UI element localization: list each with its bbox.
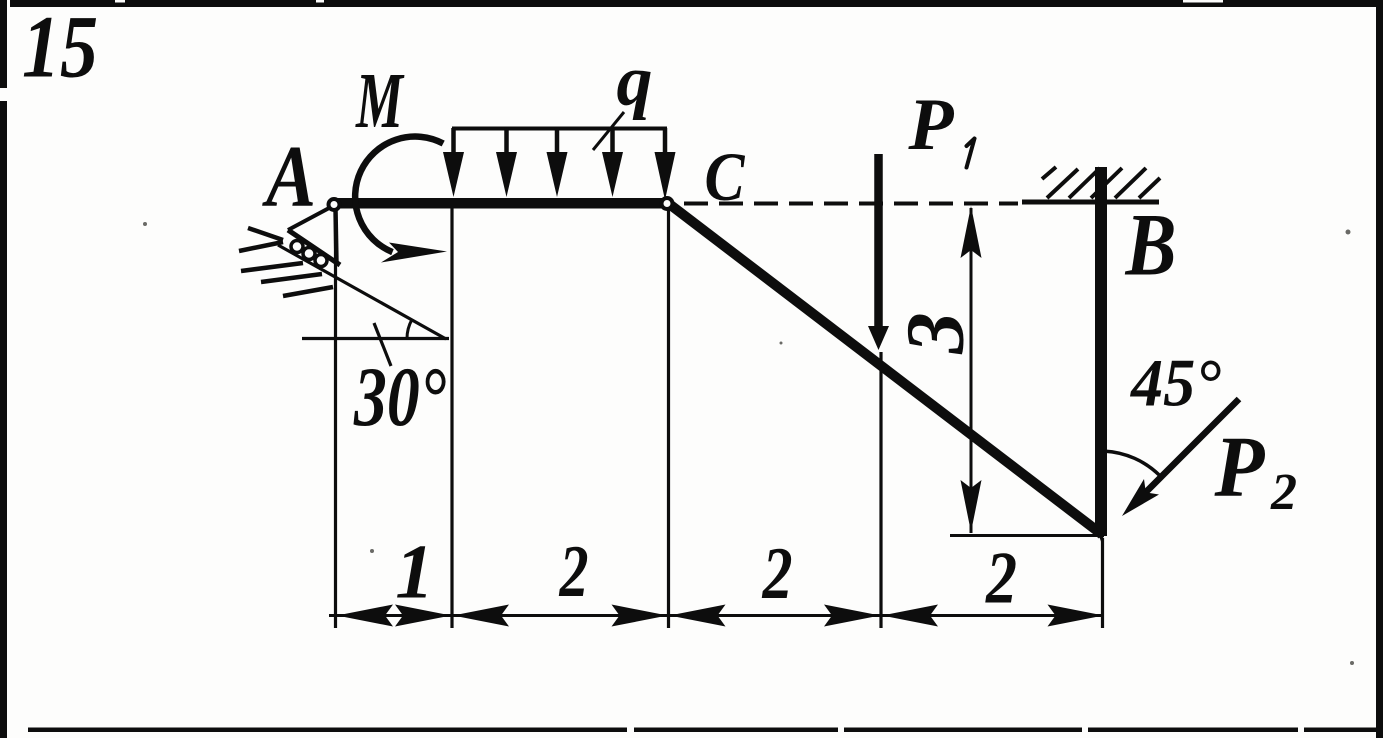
svg-text:B: B	[1125, 197, 1177, 295]
svg-text:q: q	[617, 41, 653, 121]
svg-text:1: 1	[395, 529, 434, 615]
svg-text:2: 2	[1270, 464, 1297, 521]
svg-text:2: 2	[762, 533, 793, 615]
svg-text:P: P	[907, 84, 954, 166]
svg-text:2: 2	[559, 531, 589, 613]
svg-text:P: P	[1214, 418, 1266, 515]
svg-text:2: 2	[985, 538, 1017, 620]
svg-text:C: C	[705, 139, 746, 215]
svg-text:3: 3	[889, 312, 981, 355]
svg-text:M: M	[355, 58, 405, 145]
svg-text:15: 15	[22, 0, 98, 97]
svg-text:30°: 30°	[353, 350, 446, 444]
svg-text:A: A	[262, 129, 316, 226]
svg-text:45°: 45°	[1129, 345, 1221, 421]
